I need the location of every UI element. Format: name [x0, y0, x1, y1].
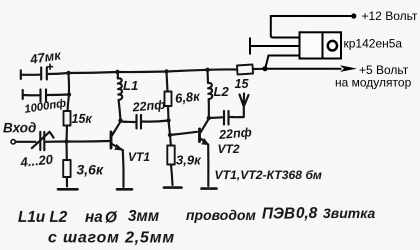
svg-text:VT2: VT2	[217, 142, 239, 156]
svg-text:VT1: VT1	[128, 150, 150, 164]
wire C2 to node B	[47, 93, 69, 96]
junction node B	[67, 92, 71, 96]
wire node A down to node B	[67, 73, 70, 95]
wire R5 to +5V node	[253, 68, 264, 70]
wire input node to VT1 base	[67, 140, 110, 143]
resistor R3 6,8к body	[165, 92, 172, 107]
svg-text:L1: L1	[123, 78, 138, 93]
junction node A	[66, 71, 70, 75]
capacitor C4 22пф left lead	[209, 116, 223, 119]
wire node B to resistor R1 top	[68, 95, 70, 112]
capacitor C1 47мк left terminal bar	[20, 70, 22, 79]
wire node D to VT2 base	[170, 132, 197, 135]
junction node C	[166, 118, 170, 122]
capacitor C2 plates	[41, 90, 47, 102]
wire C3 to node C	[143, 121, 169, 122]
svg-text:3,9к: 3,9к	[176, 152, 202, 167]
regulator U1 body	[300, 32, 342, 58]
trimmer arrow	[32, 132, 54, 148]
junction node E	[207, 116, 211, 120]
wire R4 bottom	[171, 165, 173, 186]
svg-text:Вход: Вход	[3, 120, 36, 135]
capacitor C3 22пф left lead	[121, 120, 136, 123]
svg-text:+12 Вольт: +12 Вольт	[362, 9, 418, 23]
junction rail L2	[205, 68, 209, 72]
resistor R1 15к body	[64, 111, 71, 126]
wire C1 to node A	[48, 73, 69, 74]
wire L2 bottom to node E	[208, 99, 210, 118]
wire node C to node D	[169, 121, 171, 136]
wire R3 bottom to node C	[167, 106, 170, 121]
transistor VT1 base bar	[110, 132, 113, 148]
wire C1 left lead	[21, 74, 40, 76]
junction input node	[64, 139, 68, 143]
svg-text:3,6к: 3,6к	[76, 161, 103, 177]
polarity plus of C1	[48, 64, 53, 69]
wire VT2 emitter down	[207, 145, 209, 187]
wire R1 bottom to input node	[65, 126, 68, 142]
wire R2 bottom	[66, 177, 68, 187]
junction rail R3	[164, 69, 168, 73]
VT2 emitter with arrow	[201, 139, 209, 145]
wire regulator output	[265, 56, 299, 69]
wire +12V feed	[271, 16, 353, 38]
+5V junction dot	[262, 66, 267, 71]
wire trimmer to input node	[46, 140, 67, 142]
capacitor C2 1000пф left terminal bar	[22, 90, 24, 99]
ground under R2	[58, 188, 78, 191]
resistor R5 15 body	[237, 65, 253, 75]
VT1 emitter with arrow	[112, 144, 123, 150]
svg-text:L2: L2	[214, 84, 230, 99]
VT2 collector	[201, 119, 209, 133]
ground under R4	[164, 186, 182, 189]
regulator mounting hole	[328, 41, 337, 51]
ground terminal bar of regulator	[250, 38, 299, 55]
wire input terminal to trimmer	[16, 141, 36, 143]
wire L1 bottom to VT1 collector node	[119, 100, 121, 121]
capacitor C1 plates	[41, 68, 47, 80]
trimmer capacitor C5 plates	[40, 132, 44, 150]
svg-text:на модулятор: на модулятор	[335, 75, 412, 89]
input terminal circle	[11, 140, 15, 144]
wire C4 to antenna	[230, 116, 244, 118]
+5V arrow head	[340, 65, 357, 72]
antenna	[240, 94, 249, 118]
svg-text:15к: 15к	[71, 112, 92, 126]
svg-text:VT1,VT2-КТ368 бм: VT1,VT2-КТ368 бм	[214, 168, 321, 182]
ground under VT1	[117, 188, 132, 191]
ground under VT2	[202, 187, 217, 190]
resistor R2 3,6к body	[63, 160, 70, 177]
junction VT1 collector node	[118, 118, 122, 122]
wire +5V to modulator	[265, 68, 342, 70]
wire input node to resistor R2	[65, 142, 67, 161]
wire C2 left lead	[23, 94, 39, 97]
svg-text:с шагом 2,5мм: с шагом 2,5мм	[48, 229, 175, 246]
wire top rail	[69, 69, 238, 73]
wire VT1 emitter down	[122, 150, 125, 187]
svg-text:кр142ен5а: кр142ен5а	[343, 37, 402, 51]
resistor R4 3,9к body	[167, 146, 174, 165]
junction node D	[168, 133, 172, 137]
capacitor C4 plates	[224, 111, 229, 125]
svg-text:22пф: 22пф	[218, 125, 253, 142]
regulator tab divider	[322, 32, 324, 59]
wire node D to resistor R4	[169, 135, 172, 146]
wire rail to resistor R3	[167, 72, 168, 92]
+12V line end dot	[351, 13, 356, 18]
capacitor C3 plates	[137, 115, 142, 129]
junction rail L1	[115, 70, 119, 74]
svg-text:6,8к: 6,8к	[174, 88, 201, 106]
svg-text:15: 15	[235, 77, 250, 91]
svg-text:22пф: 22пф	[131, 98, 166, 115]
inductor L2	[208, 70, 213, 99]
transistor VT2 base bar	[198, 129, 201, 142]
VT1 collector	[112, 122, 121, 136]
inductor L1	[118, 72, 122, 100]
